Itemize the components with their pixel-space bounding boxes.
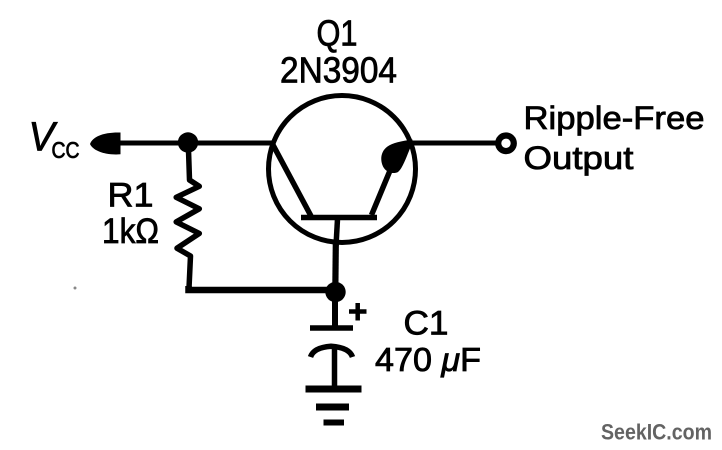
svg-text:CC: CC xyxy=(52,137,80,163)
C1 top plate xyxy=(310,325,353,331)
transistor Q1 xyxy=(269,96,416,247)
emitter lead (diagonal) xyxy=(372,161,395,215)
base lead inside circle xyxy=(336,219,338,246)
wire: R1 bottom elbow to junction xyxy=(189,286,336,290)
svg-text:C1: C1 xyxy=(404,304,449,342)
svg-text:1kΩ: 1kΩ xyxy=(102,212,159,251)
svg-text:Ripple-Free: Ripple-Free xyxy=(524,100,705,136)
wire: emitter to output terminal xyxy=(411,141,496,146)
C1 curved plate xyxy=(311,346,353,357)
svg-text:Q1: Q1 xyxy=(317,13,358,54)
svg-text:470 μF: 470 μF xyxy=(375,341,481,378)
emitter arrowhead xyxy=(381,140,412,174)
base bar xyxy=(301,215,377,221)
svg-text:2N3904: 2N3904 xyxy=(280,50,397,91)
node: Vcc/R1 junction xyxy=(178,132,198,152)
ground xyxy=(306,389,362,423)
output terminal (open circle) xyxy=(498,136,514,152)
capacitor C1 xyxy=(310,303,367,387)
transistor circle xyxy=(269,96,416,243)
svg-text:SeekIC.com: SeekIC.com xyxy=(601,420,712,445)
resistor R1 xyxy=(176,150,199,288)
svg-text:Output: Output xyxy=(524,140,634,176)
svg-text:R1: R1 xyxy=(108,177,154,215)
wire: Vcc rail to transistor collector entry xyxy=(110,141,273,146)
wire: transistor base down to junction xyxy=(332,244,339,292)
wire: junction down to capacitor xyxy=(332,292,338,326)
C1 plus sign xyxy=(349,303,367,321)
speck artifact xyxy=(74,287,77,290)
C1 lead down xyxy=(332,348,338,387)
node: R1/base/C1 junction xyxy=(325,282,345,302)
Vcc arrowhead xyxy=(90,132,121,154)
collector lead (diagonal) xyxy=(273,144,312,216)
